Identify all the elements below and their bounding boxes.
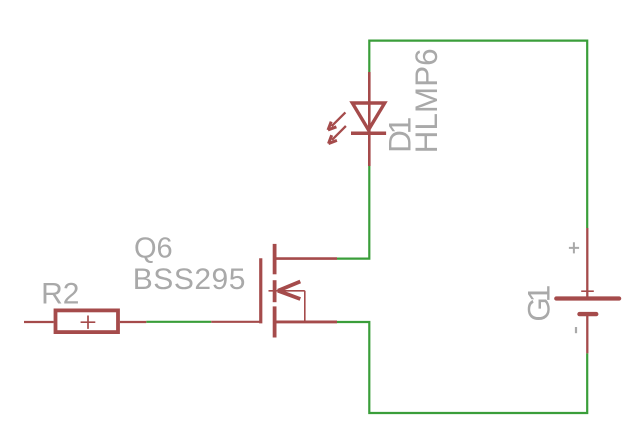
svg-text:Q6: Q6 [134,232,173,264]
svg-text:HLMP6: HLMP6 [408,48,444,153]
svg-text:R2: R2 [41,277,79,310]
svg-text:BSS295: BSS295 [133,263,246,296]
svg-text:1: 1 [521,285,557,303]
